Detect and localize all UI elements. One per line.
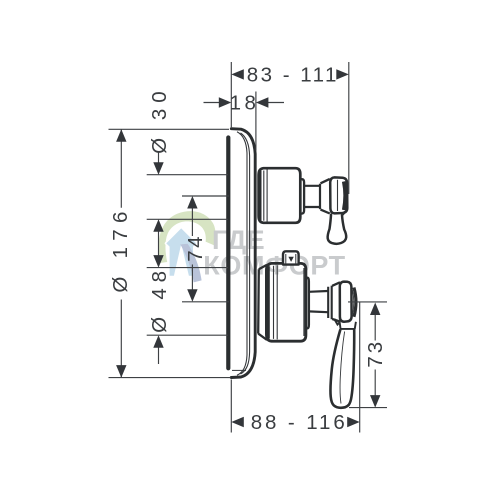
bottom handle sleeve flange: [267, 266, 269, 338]
knob tip extension line: [348, 62, 350, 194]
diverter button inner lines: [286, 254, 296, 264]
lever blade inner line: [340, 332, 345, 404]
dim 18 leaders: [204, 102, 285, 104]
bottom handle base cone: [258, 265, 267, 340]
dim D176 arrows: [116, 129, 126, 142]
bottom handle hub head: [340, 282, 352, 322]
escutcheon inner contour 2: [241, 133, 250, 374]
plate top extension line: [109, 128, 230, 130]
dim 73 line: [374, 315, 376, 397]
top handle knob inner line: [337, 180, 339, 211]
escutcheon inner contour 1: [237, 132, 247, 376]
bottom handle sleeve contour lines: [274, 265, 304, 339]
top handle knob neck: [319, 184, 321, 210]
svg-text:73: 73: [364, 339, 387, 368]
diverter button: [283, 251, 299, 264]
top handle knob head: [330, 177, 347, 213]
dim 73 bottom extension line: [349, 407, 387, 409]
escutcheon outer profile: [231, 129, 255, 378]
svg-text:Ø 30: Ø 30: [148, 85, 171, 153]
diverter button notch: [288, 257, 293, 262]
dim D176 line: [120, 129, 122, 377]
dim 18 arrows: [219, 97, 232, 107]
top handle sleeve contour lines: [264, 170, 267, 222]
watermark house: [166, 228, 196, 275]
top handle end cap: [300, 179, 304, 213]
bottom handle stem: [309, 291, 328, 312]
dim D48 lower arrow: [158, 347, 160, 365]
svg-text:74: 74: [184, 234, 207, 262]
svg-text:88 - 116: 88 - 116: [251, 411, 348, 434]
hub zigzag notch: [334, 319, 340, 325]
D30 bottom extension line: [147, 218, 228, 220]
top handle sleeve flange: [259, 171, 261, 221]
watermark house white outline: [166, 228, 196, 275]
watermark green swoosh: [158, 211, 215, 263]
escutcheon bottom step line: [232, 369, 246, 371]
dome front extension line: [255, 92, 257, 151]
lever tip extension line: [359, 303, 361, 433]
bottom handle cone: [332, 282, 340, 321]
svg-text:Ø 176: Ø 176: [109, 205, 132, 292]
wall extension line upper: [230, 62, 232, 127]
dim 74 bottom extension line / axis: [182, 301, 229, 303]
bottom handle sleeve: [266, 263, 306, 341]
svg-text:83 - 111: 83 - 111: [247, 64, 339, 87]
svg-text:Ø 48: Ø 48: [148, 265, 171, 333]
D30/D48 shared arrows stem: [158, 230, 160, 257]
dim 74 arrows: [187, 196, 197, 209]
lever collar: [340, 322, 356, 329]
D30 top extension line: [147, 174, 228, 176]
lever blade: [330, 329, 354, 407]
svg-text:КОМФОРТ: КОМФОРТ: [203, 250, 345, 280]
D48 bottom extension line: [147, 334, 228, 336]
dim 88-116 arrows: [231, 417, 244, 427]
top handle knob face band: [344, 181, 345, 210]
dim 73 arrows: [370, 303, 380, 316]
top handle stem: [304, 186, 319, 207]
top handle spoke: [328, 212, 347, 244]
dim 74 top extension line: [182, 195, 229, 197]
bottom handle end cap: [306, 278, 309, 329]
escutcheon back flange: [226, 138, 230, 369]
watermark slate stroke: [180, 244, 201, 283]
wall extension line lower: [230, 380, 232, 433]
dim 83-111 arrows: [231, 69, 244, 79]
top handle sleeve: [259, 168, 301, 223]
dim D30 stem: [158, 153, 160, 164]
bottom handle neck: [328, 286, 332, 320]
bottom handle hub face band: [354, 288, 356, 317]
dim D30 arrow: [153, 162, 163, 175]
plate bottom extension line: [109, 377, 231, 379]
D48 top extension line: [147, 267, 228, 269]
bottom handle hub face inner arc: [352, 290, 353, 315]
dim 74 line: [191, 208, 193, 291]
dim 73 top extension line: [348, 301, 387, 303]
svg-text:18: 18: [230, 92, 260, 115]
top handle knob cone: [321, 179, 330, 214]
